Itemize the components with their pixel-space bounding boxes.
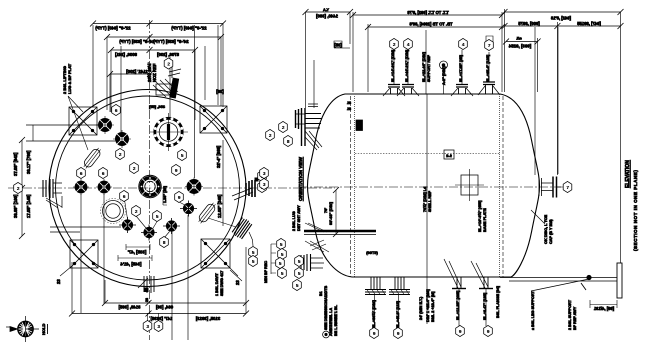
orientation line down x=172 — [171, 231, 173, 340]
svg-text:1.38" [35]: 1.38" [35] — [163, 185, 167, 203]
svg-text:24'-8" [635] (TYP): 24'-8" [635] (TYP) — [153, 39, 189, 44]
svg-text:2: 2 — [269, 133, 272, 138]
extension line x=93 top — [92, 25, 94, 107]
svg-text:SEE DIMENSIONAL OTB: SEE DIMENSIONAL OTB — [324, 286, 328, 330]
nozzle dark (127,226) — [119, 217, 136, 233]
svg-text:81: 81 — [347, 107, 351, 111]
svg-text:5: 5 — [298, 259, 301, 264]
svg-text:A-2" [DIM]: A-2" [DIM] — [442, 66, 446, 85]
svg-text:EL.+12.25" [465]: EL.+12.25" [465] — [456, 290, 460, 320]
leader hex to nozzle a — [125, 201, 128, 219]
nozzle dark (104,187) — [96, 179, 112, 195]
svg-text:3146, [365]: 3146, [365] — [118, 305, 141, 310]
svg-text:76': 76' — [324, 208, 328, 213]
hex flag 3 at (264,173) — [260, 167, 269, 178]
svg-text:[947] ,99155: [947] ,99155 — [576, 21, 600, 26]
hex flag 5 at (253,252) — [249, 246, 258, 257]
hex flag 4 at (408,44) — [404, 38, 413, 49]
svg-text:LUG & BF PLAT: LUG & BF PLAT — [67, 63, 72, 94]
svg-text:(6T00): (6T00) — [365, 250, 377, 255]
svg-text:SUPPORT REF: SUPPORT REF — [427, 54, 431, 82]
svg-text:SEE DWG 417: SEE DWG 417 — [220, 271, 224, 296]
svg-text:12.05" [345]: 12.05" [345] — [217, 194, 222, 218]
lifting lug square NE — [200, 106, 227, 133]
right nozzle ext lines up — [534, 27, 536, 175]
svg-text:31: 31 — [347, 101, 351, 105]
hex flag 2 at (168.5,63.5) — [164, 58, 173, 69]
svg-text:TB. TO TB [2994] ,88'8: TB. TO TB [2994] ,88'8 — [409, 22, 453, 27]
leg support B x486 — [471, 261, 493, 326]
svg-text:354, [55]: 354, [55] — [148, 104, 165, 109]
svg-text:5: 5 — [298, 271, 301, 276]
svg-text:6: 6 — [102, 171, 105, 176]
capsule lug right — [196, 201, 217, 225]
svg-text:T.T. TO T.T. [992] ,8'78: T.T. TO T.T. [992] ,8'78 — [407, 10, 449, 15]
svg-text:DET SHT AWY: DET SHT AWY — [297, 205, 301, 231]
horizontal centerline — [8, 187, 335, 189]
hex flag 5 at (299,273) — [295, 267, 304, 278]
svg-text:[345] ,41'4: [345] ,41'4 — [120, 262, 142, 267]
shell outer circle — [49, 90, 246, 287]
svg-text:EL.+45.8" [115]: EL.+45.8" [115] — [396, 300, 400, 328]
hex flag 7 at (567.5,187) — [563, 181, 572, 192]
svg-text:[900] ,9975: [900] ,9975 — [518, 21, 540, 26]
svg-text:EL.+99¾" [DIM]: EL.+99¾" [DIM] — [372, 299, 376, 328]
orientation line up x=121 — [120, 46, 122, 132]
leg support A x459 — [444, 259, 466, 326]
leader to note — [230, 270, 242, 281]
manway square — [455, 169, 484, 201]
svg-text:[993] ,9254: [993] ,9254 — [508, 44, 531, 49]
hex flag 3 at (147.5,326) — [143, 320, 152, 331]
svg-text:39.69" [100]: 39.69" [100] — [13, 194, 18, 218]
hex flag 3 at (158.5,326) — [154, 320, 163, 331]
svg-text:2: 2 — [119, 152, 122, 157]
leader SE lug — [228, 266, 238, 276]
nozzle dark (81,187) — [73, 179, 89, 195]
hex flag 5 at (297,285) — [293, 279, 302, 290]
hex flag 8 at (288,141) — [284, 135, 293, 146]
svg-text:EL.+44'-2⅝" [DIM]: EL.+44'-2⅝" [DIM] — [405, 49, 409, 82]
tag box interior — [444, 150, 454, 159]
svg-text:1 BSL DAVIT: 1 BSL DAVIT — [215, 272, 219, 296]
hex flag 5 at (253,261) — [249, 255, 258, 266]
leader SW lug — [60, 266, 72, 276]
svg-text:2: 2 — [168, 61, 171, 66]
hex flag 2 at (283,127) — [279, 121, 288, 132]
hex flag 5 at (182,155) — [178, 149, 187, 160]
svg-text:2 BSL LUG: 2 BSL LUG — [292, 211, 296, 231]
svg-text:5: 5 — [281, 271, 284, 276]
lifting lug square NW — [69, 107, 97, 135]
svg-text:1141' [200]: 1141' [200] — [126, 69, 148, 74]
nozzle dark (194,187) — [185, 178, 203, 196]
tier T2 — [365, 22, 505, 31]
svg-text:5: 5 — [252, 250, 255, 255]
right bracket — [617, 12, 622, 298]
tier T1R — [502, 9, 624, 21]
svg-text:7: 7 — [488, 43, 491, 48]
svg-text:32'-4" [985]: 32'-4" [985] — [216, 145, 221, 168]
svg-text:93'-63" [DIM]: 93'-63" [DIM] — [329, 201, 333, 225]
hex flag 8 at (164,242) — [160, 236, 169, 247]
bottom nozzle B x399 — [389, 277, 410, 328]
svg-text:2 BSL SUPPORT: 2 BSL SUPPORT — [568, 299, 572, 330]
svg-text:EL.+14'-0⅝" [DIM]: EL.+14'-0⅝" [DIM] — [391, 49, 395, 82]
svg-text:OK DISO, L TOE: OK DISO, L TOE — [544, 214, 548, 244]
hex flag 2 at (394,44) — [390, 38, 399, 49]
dim tier2 — [104, 34, 224, 110]
svg-text:1-2: 1-2 — [445, 153, 452, 158]
hex flag 5 at (157,216) — [153, 210, 162, 221]
hex flag 9 at (374,333) — [370, 327, 379, 338]
ext line x504.5 — [504, 9, 506, 92]
svg-text:2: 2 — [393, 42, 396, 47]
support ref line x426 — [422, 30, 431, 94]
baseline right — [500, 275, 617, 291]
leader hex to nozzle e — [165, 232, 170, 238]
ext line x353 — [352, 12, 354, 92]
svg-text:3: 3 — [263, 182, 266, 187]
svg-text:BASE PLATE: BASE PLATE — [483, 208, 487, 232]
svg-text:BF REF AWY: BF REF AWY — [573, 306, 577, 330]
orientation line down x=188 — [187, 215, 189, 340]
top nozzle 1 x394 — [383, 49, 405, 96]
svg-text:9: 9 — [373, 331, 376, 336]
svg-text:6: 6 — [123, 194, 126, 199]
[35] box tag with leader — [334, 41, 350, 48]
svg-text:EL.+10'-9¾" [455]: EL.+10'-9¾" [455] — [478, 200, 482, 232]
svg-text:37.08" [942]: 37.08" [942] — [13, 152, 18, 176]
svg-text:5: 5 — [156, 214, 159, 219]
vent circle symbol — [440, 61, 448, 94]
orientation line down x=240 — [245, 247, 247, 314]
svg-text:5: 5 — [279, 261, 282, 266]
hex flag 3 at (264,184) — [260, 178, 269, 189]
svg-text:3105, [3913]: 3105, [3913] — [195, 316, 220, 321]
head leader note right — [531, 210, 553, 244]
orientation line up x=195 — [194, 25, 196, 178]
tier T3R — [503, 36, 541, 49]
seam vertical — [426, 94, 428, 277]
orientation line down x=104 — [103, 194, 105, 304]
nozzle ring (113,211) — [101, 199, 126, 224]
left dim column — [19, 125, 121, 239]
svg-text:EL.+8.47" [195]: EL.+8.47" [195] — [483, 292, 487, 320]
top nozzle 4 x489 — [478, 36, 500, 95]
head nozzle top-left — [295, 104, 322, 150]
svg-text:4: 4 — [407, 42, 410, 47]
nozzle dark (122,139) — [113, 130, 131, 148]
svg-text:5: 5 — [280, 242, 283, 247]
svg-text:[99] ,4/131: [99] ,4/131 — [593, 306, 614, 311]
svg-text:[335] ,47': [335] ,47' — [128, 250, 147, 255]
left side nozzle flange — [43, 179, 62, 208]
left tangent line — [350, 96, 352, 277]
svg-text:6: 6 — [115, 108, 118, 113]
right side nozzle flange — [232, 180, 255, 200]
svg-text:22'-8" [640] (TYP): 22'-8" [640] (TYP) — [171, 26, 207, 31]
svg-text:147' [3636]: 147' [3636] — [150, 316, 172, 321]
hex flag 9 at (488,331) — [484, 325, 493, 336]
capsule lug upper-left — [81, 146, 102, 170]
hex flag 5 at (299,261) — [295, 255, 304, 266]
hex flag 2 at (270,135) — [266, 129, 275, 140]
svg-text:3: 3 — [147, 324, 150, 329]
hex flag 6 at (103,173) — [99, 167, 108, 178]
svg-text:MIN BF REC: MIN BF REC — [264, 261, 268, 283]
nozzle dark (149.5,233) — [141, 225, 157, 241]
hexagon flags layer — [0, 0, 1, 1]
hex flag 6 at (81,173) — [77, 167, 86, 178]
bottom nozzle of circle — [138, 276, 154, 302]
svg-text:HOLD: HOLD — [41, 324, 46, 335]
hex flag 9 at (176,170) — [172, 164, 181, 175]
svg-text:[35]: [35] — [334, 43, 342, 48]
top nozzle on shell (circle top) — [153, 64, 181, 98]
ext line x502 — [501, 12, 503, 92]
svg-text:BSL FLANGE [94]: BSL FLANGE [94] — [496, 285, 500, 318]
svg-text:2: 2 — [282, 125, 285, 130]
hex flag 9 at (460,331) — [456, 325, 465, 336]
compass rose — [6, 316, 48, 342]
svg-text:17.05" [145]: 17.05" [145] — [26, 194, 31, 218]
hex flag 9 at (398,333) — [394, 327, 403, 338]
lifting lug square SE — [201, 239, 230, 268]
svg-text:1440, [380]: 1440, [380] — [315, 14, 338, 19]
dim tier4 — [107, 71, 153, 112]
small head dim — [303, 8, 354, 108]
svg-text:22'-8" [640] (TYP): 22'-8" [640] (TYP) — [95, 26, 131, 31]
orientation line down x=81 — [80, 194, 82, 313]
orientation line up x=170 — [169, 57, 171, 118]
bottom tier1 — [102, 300, 249, 310]
svg-text:DIM' 1 +25.4" [MS]: DIM' 1 +25.4" [MS] — [426, 288, 430, 322]
svg-text:ORIENTATION VIEW: ORIENTATION VIEW — [298, 156, 303, 201]
head nozzle bottom-left — [301, 240, 326, 271]
svg-text:9: 9 — [175, 168, 178, 173]
hex flag 2 at (134,168) — [130, 162, 139, 173]
hex flag 2 at (120,154) — [116, 148, 125, 159]
right nozzle — [539, 177, 561, 198]
hex flag 7 at (489,45) — [485, 39, 494, 50]
hex leader column lines — [271, 244, 276, 274]
dim tier3 — [108, 47, 198, 120]
top nozzle 3 x462 — [451, 50, 473, 96]
svg-text:EL.+65.4" [135]: EL.+65.4" [135] — [486, 54, 490, 82]
svg-text:76¾" [DIM] Ld: 76¾" [DIM] Ld — [423, 186, 427, 212]
bracket dim — [590, 300, 617, 311]
dim tier1 top — [90, 21, 226, 227]
svg-text:5: 5 — [281, 252, 284, 257]
svg-text:NOZ REF: NOZ REF — [152, 63, 157, 82]
right tangent line — [499, 96, 501, 277]
svg-text:8: 8 — [163, 240, 166, 245]
svg-text:5: 5 — [296, 283, 299, 288]
svg-text:CAP (B Y BM): CAP (B Y BM) — [549, 219, 553, 244]
SE radial nozzle flange stack — [232, 217, 253, 240]
top nozzle 2 x408 — [397, 49, 419, 96]
nozzle dark (189,210) — [180, 201, 197, 217]
nozzle M1 big flange top — [150, 113, 188, 151]
nozzle center C — [139, 175, 161, 197]
hex flag 4 at (463,44) — [459, 38, 468, 49]
vertical dim left head — [324, 187, 339, 237]
svg-text:3: 3 — [263, 171, 266, 176]
leader hex to nozzle b — [137, 217, 147, 229]
svg-text:(SECTION NOT IN ONE PLANE): (SECTION NOT IN ONE PLANE) — [633, 170, 638, 251]
svg-text:[36]: [36] — [216, 89, 224, 94]
bottom hex pair — [148, 313, 159, 321]
hex flag 6 at (116,110) — [112, 104, 121, 115]
svg-text:B1: B1 — [319, 291, 323, 296]
weld mark near right nozzle — [255, 178, 259, 182]
leader hex to nozzle d — [180, 203, 186, 206]
svg-text:± BSL LEG SUPPORT: ± BSL LEG SUPPORT — [531, 290, 535, 330]
svg-text:a/1: a/1 — [515, 36, 521, 41]
svg-text:24'-8" [635] (TYP): 24'-8" [635] (TYP) — [119, 39, 155, 44]
orientation line down x=141 — [104, 280, 106, 303]
hex flag 5 at (282,273) — [278, 267, 287, 278]
dim below center cluster 1 — [126, 244, 150, 255]
svg-text:9: 9 — [459, 329, 462, 334]
svg-text:9: 9 — [487, 329, 490, 334]
center bottom refs x427 — [419, 277, 435, 324]
ext line x557.4 — [556, 22, 558, 175]
svg-text:23: 23 — [56, 279, 61, 284]
svg-text:SHELL REF: SHELL REF — [428, 190, 432, 212]
svg-text:7: 7 — [567, 185, 570, 190]
svg-text:2: 2 — [133, 166, 136, 171]
nozzle dark (105,125) — [96, 116, 114, 134]
hex flag 2 at (18,188) — [14, 182, 23, 193]
svg-text:[942] ,8'18: [942] ,8'18 — [550, 16, 571, 21]
svg-text:26: 26 — [145, 298, 149, 302]
svg-text:A3' B1 1 BL: A3' B1 1 BL — [334, 304, 338, 326]
tag box tangent — [356, 120, 363, 131]
svg-text:EL.+1T.25" [45]: EL.+1T.25" [45] — [459, 54, 463, 82]
svg-text:6: 6 — [80, 171, 83, 176]
svg-text:NT TBBL LA: NT TBBL LA — [329, 307, 333, 330]
svg-text:ELEVATION: ELEVATION — [625, 160, 631, 188]
internal pipe — [304, 223, 378, 255]
svg-text:BML 2 +23.4" [M]: BML 2 +23.4" [M] — [431, 291, 435, 322]
svg-text:9706, [200]: 9706, [200] — [156, 52, 179, 57]
lug leader line — [68, 96, 88, 150]
hex flag 6 at (124,196) — [120, 190, 129, 201]
svg-text:30.17" [766]: 30.17" [766] — [26, 150, 31, 174]
hex flag 5 at (282,254) — [278, 248, 287, 259]
lifting lug square SW — [70, 240, 98, 268]
circled note bottom — [323, 286, 338, 338]
ext line x368 — [367, 24, 369, 92]
tier T1 — [350, 10, 505, 18]
bottom tier2 — [69, 311, 249, 322]
svg-text:EL.+23.44" [DIM]: EL.+23.44" [DIM] — [422, 51, 426, 82]
ext line x537.6 — [537, 38, 539, 92]
svg-text:5: 5 — [252, 259, 255, 264]
svg-text:664, [36]: 664, [36] — [155, 305, 173, 310]
tier T2R — [502, 21, 624, 29]
orientation line up x=205 — [204, 46, 206, 100]
hex flag 9 at (179,197) — [175, 191, 184, 202]
nozzle dark (171,226) — [163, 218, 180, 234]
inner dim bracket right of center — [163, 185, 167, 205]
vessel outline — [308, 94, 540, 277]
ELEVATION title — [625, 160, 638, 251]
svg-text:2: 2 — [135, 209, 138, 214]
leader hex to nozzle c — [153, 222, 158, 230]
svg-text:5: 5 — [181, 153, 184, 158]
svg-text:23: 23 — [235, 280, 240, 285]
vessel axis centerline — [299, 186, 572, 188]
svg-text:9006, [241]: 9006, [241] — [114, 52, 137, 57]
vertical centerline — [149, 20, 151, 340]
hex flag 2 at (136,211) — [132, 205, 141, 216]
orientation line up x=218 — [217, 25, 219, 105]
svg-text:Y.A: Y.A — [323, 8, 329, 12]
svg-text:3: 3 — [158, 324, 161, 329]
svg-text:24' (MIN E.T.): 24' (MIN E.T.) — [419, 296, 423, 320]
svg-text:2: 2 — [17, 186, 20, 191]
svg-text:4: 4 — [462, 42, 465, 47]
svg-text:8: 8 — [287, 139, 290, 144]
svg-text:9: 9 — [178, 195, 181, 200]
orientation line down x=94 — [71, 262, 73, 314]
shell inner circle — [56, 96, 240, 280]
seam line dotted — [355, 153, 500, 155]
bottom nozzle A x375 — [365, 277, 386, 328]
hex flag 3 at (262,176) — [258, 170, 267, 181]
dim below center cluster 2 — [118, 255, 152, 267]
hex flag 5 at (280,263) — [276, 257, 285, 268]
hex flag 3 at (262,187) — [258, 181, 267, 192]
svg-text:9: 9 — [397, 331, 400, 336]
hex flag 5 at (281,244) — [277, 238, 286, 249]
